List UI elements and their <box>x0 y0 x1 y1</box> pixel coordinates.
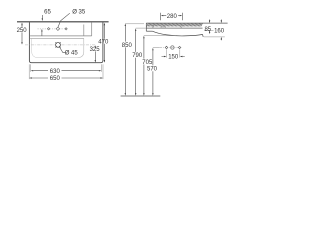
svg-text:280: 280 <box>167 14 178 20</box>
side view apron bottom <box>146 30 152 32</box>
dim 325 line <box>94 46 96 62</box>
dim 150 outside tails <box>162 56 185 58</box>
leader Ø35 <box>58 13 70 27</box>
svg-text:470: 470 <box>98 39 109 45</box>
dim 65 lower arrow <box>41 29 42 32</box>
dim 280 ticks <box>161 13 183 20</box>
160 extension line <box>204 36 225 38</box>
dim 280 line <box>163 15 179 17</box>
dim 150 extension lines <box>167 49 180 57</box>
tap hole left <box>47 28 49 30</box>
fixing hole right diamond <box>178 46 180 48</box>
leader Ø45 <box>59 47 65 53</box>
790 extension line <box>136 27 147 29</box>
dim 650 extension lines <box>29 64 103 79</box>
bowl bottom outline <box>32 38 78 57</box>
dim 85 line <box>209 20 211 34</box>
svg-text:650: 650 <box>50 76 61 82</box>
dim 850 line <box>124 26 126 95</box>
drain circle <box>56 43 61 48</box>
dim 705 line <box>143 38 145 95</box>
side view underside curve <box>153 31 203 36</box>
svg-text:850: 850 <box>122 43 133 49</box>
dim 790 line <box>135 30 137 94</box>
tap hole centre dashed line <box>38 28 69 30</box>
dim 65 upper arrow <box>41 15 43 20</box>
570 extension line <box>153 47 159 49</box>
tap hole middle <box>56 27 59 30</box>
floor line <box>121 95 161 97</box>
dim 160 line <box>220 20 222 41</box>
svg-text:85: 85 <box>204 27 211 33</box>
svg-text:Ø 45: Ø 45 <box>65 51 79 57</box>
deck hole circles <box>152 26 154 28</box>
svg-text:325: 325 <box>90 47 101 53</box>
svg-text:570: 570 <box>147 67 158 73</box>
outlet circle <box>171 46 174 49</box>
deck edge vertical <box>91 22 93 36</box>
tap hole right <box>65 28 67 30</box>
svg-text:790: 790 <box>132 53 143 59</box>
dim 630 extension lines <box>31 64 102 72</box>
svg-text:160: 160 <box>214 28 225 34</box>
basin inner rim line <box>30 35 92 37</box>
705 extension line <box>144 35 176 37</box>
fixing holes dash-dot line <box>159 47 182 49</box>
svg-text:150: 150 <box>168 55 179 61</box>
basin outer outline (plan view) <box>29 22 103 63</box>
dim 570 line <box>152 50 154 94</box>
850 extension line <box>125 23 144 25</box>
dim 250 line <box>21 23 23 43</box>
dim 650 line <box>32 77 101 79</box>
bowl inner line <box>30 37 84 39</box>
svg-text:65: 65 <box>44 10 51 16</box>
side view back step <box>202 34 205 37</box>
svg-text:250: 250 <box>17 28 28 34</box>
svg-text:705: 705 <box>142 60 153 66</box>
wall line (plan view) <box>17 21 109 23</box>
drain centre dash-dot line <box>25 44 95 46</box>
side view deck underside line <box>146 27 202 29</box>
bowl right edge <box>83 25 85 37</box>
overflow slot <box>161 27 166 28</box>
svg-text:630: 630 <box>50 69 61 75</box>
dim 470 line <box>103 24 105 61</box>
side view front edge <box>145 23 147 31</box>
side view top line <box>146 22 227 24</box>
side view hatch band <box>147 23 203 26</box>
drain cross ticks <box>55 42 60 47</box>
svg-text:Ø 35: Ø 35 <box>72 10 86 16</box>
fixing hole left diamond <box>165 46 168 49</box>
85 extension line <box>204 29 214 31</box>
dim 630 line <box>33 70 99 72</box>
